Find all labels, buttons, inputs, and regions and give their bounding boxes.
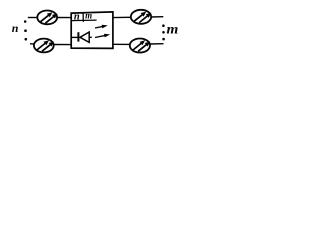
- E1 arrow a: [40, 14, 50, 22]
- emitter circle E2 (bottom-left): [34, 39, 54, 53]
- E2 arrow a: [36, 43, 46, 51]
- wire box to E3 (top-right): [113, 16, 131, 18]
- input ellipsis dots: [24, 20, 27, 40]
- E3 arrow a: [133, 14, 143, 22]
- E4 arrow a: [132, 43, 142, 51]
- wire E2 to coupler box: [54, 44, 71, 46]
- header underline: [71, 19, 96, 22]
- E3 arrow b: [139, 15, 148, 23]
- svg-text:m: m: [167, 23, 179, 38]
- LED D1 anode lead: [71, 36, 77, 38]
- LED D1 triangle: [80, 32, 89, 42]
- LED D1 stub: [89, 36, 92, 38]
- E4 arrow b: [138, 44, 147, 52]
- svg-text:m: m: [85, 11, 92, 21]
- svg-text:n: n: [74, 12, 80, 23]
- emission arrow upper: [95, 26, 103, 28]
- E2 arrow b: [42, 44, 51, 52]
- emission arrow lower: [95, 35, 105, 37]
- emitter circle E1 (top-left): [37, 11, 57, 25]
- output ellipsis dots: [162, 24, 165, 40]
- E1 arrow b: [45, 16, 54, 24]
- emitter circle E3 (top-right): [131, 10, 151, 24]
- wire E1 to coupler box: [57, 17, 71, 19]
- wire box to E4 (bottom-right): [113, 43, 130, 45]
- wire input top: [28, 17, 38, 19]
- LED D1 cathode bar: [77, 32, 79, 41]
- emitter circle E4 (bottom-right): [130, 39, 150, 53]
- wire output bottom: [150, 43, 164, 45]
- wire output top: [151, 16, 163, 18]
- wire input bottom: [30, 43, 35, 45]
- header divider: [82, 13, 84, 22]
- svg-text:n: n: [12, 21, 19, 35]
- coupler box U1 (n x m) outline: [71, 12, 113, 49]
